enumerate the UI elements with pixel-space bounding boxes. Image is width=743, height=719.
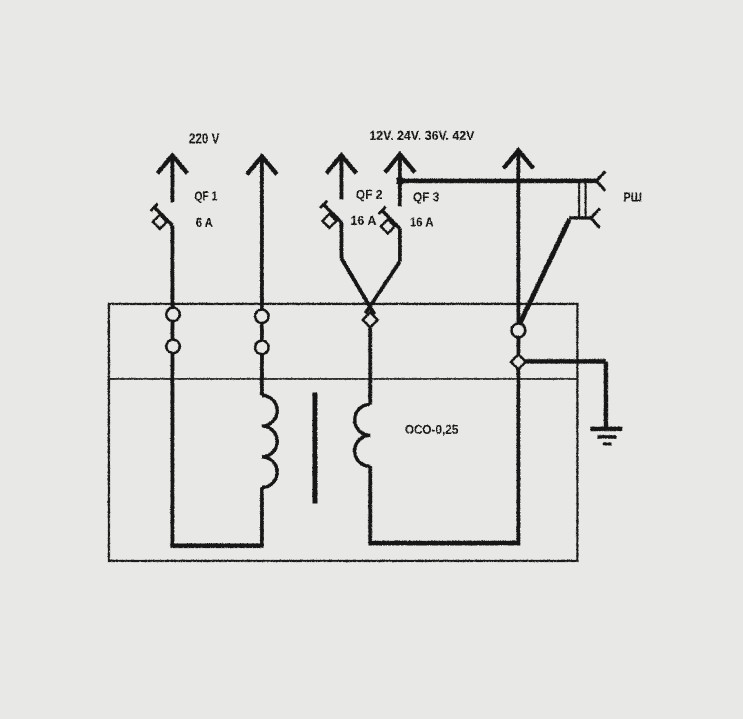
primary winding of T1 (3 turns) — [262, 395, 277, 487]
wire QF2 down — [339, 222, 343, 258]
socket PШ lower contact fork — [591, 208, 600, 228]
wire secondary right riser — [516, 152, 520, 543]
svg-text:QF 2: QF 2 — [356, 187, 383, 202]
terminal X4a (circle, wire 4) — [511, 323, 525, 337]
terminal strip divider line — [109, 378, 578, 380]
terminal X2a (circle, wire 2) — [255, 309, 268, 322]
arrow terminal A4 (12-42V out via QF3) — [385, 154, 415, 206]
socket PШ lower lead — [569, 216, 591, 219]
ground wire horizontal — [524, 359, 606, 363]
wire QF1 to box — [170, 225, 174, 546]
arrow terminal A1 (220V phase) — [157, 155, 187, 202]
wire secondary top lead — [368, 312, 372, 404]
svg-text:ОСО-0,25: ОСО-0,25 — [405, 422, 459, 437]
secondary winding of T1 (2 turns) — [354, 404, 370, 466]
svg-text:QF 3: QF 3 — [413, 189, 440, 204]
wire secondary bottom lead — [368, 466, 372, 543]
terminal X2b (circle, wire 2) — [255, 340, 268, 353]
svg-text:QF 1: QF 1 — [194, 188, 217, 203]
wire QF2 diagonal to node — [341, 258, 374, 314]
ground symbol — [590, 429, 622, 444]
terminal X3 (diamond) — [362, 312, 377, 327]
arrow terminal A5 (common out) — [503, 150, 533, 168]
wire primary bottom lead — [260, 487, 264, 546]
arrow terminal A3 (12-42V out via QF2) — [326, 155, 356, 199]
circuit breaker QF3 — [378, 206, 399, 233]
circuit breaker QF2 — [320, 200, 341, 227]
svg-text:16 A: 16 A — [350, 213, 377, 228]
socket PШ connector body line left — [578, 181, 580, 217]
wire QF3 diagonal to node — [365, 261, 400, 313]
ground wire vertical — [603, 361, 607, 428]
svg-text:220 V: 220 V — [189, 131, 220, 147]
socket PШ upper contact fork — [596, 171, 605, 191]
arrow terminal A2 (220V neutral) — [247, 156, 277, 395]
junction rail/QF3 — [396, 177, 402, 183]
wire QF3 down — [398, 228, 402, 261]
svg-text:6 A: 6 A — [196, 214, 214, 229]
svg-text:РШ: РШ — [623, 189, 642, 204]
svg-text:16 A: 16 A — [410, 214, 434, 229]
output rail wire — [400, 178, 597, 183]
terminal X1a (circle, wire 1) — [166, 307, 179, 320]
terminal X1b (circle, wire 1) — [166, 339, 179, 352]
circuit breaker QF1 — [150, 203, 172, 228]
socket PШ connector body line right — [584, 181, 586, 217]
terminal X4b (diamond, wire 4) — [511, 354, 526, 369]
wire primary bottom return — [170, 543, 263, 548]
transformer core — [312, 392, 317, 503]
transformer T1 enclosure box — [109, 304, 578, 561]
wire PШ diagonal to node — [519, 219, 569, 324]
svg-text:12V. 24V. 36V. 42V: 12V. 24V. 36V. 42V — [369, 128, 474, 143]
wire secondary bottom return — [368, 540, 520, 545]
